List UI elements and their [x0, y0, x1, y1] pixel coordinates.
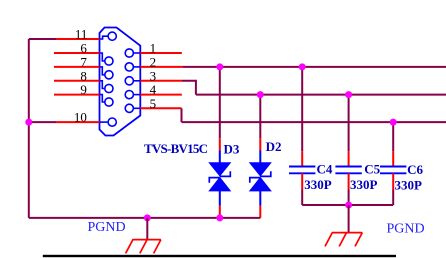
pin red D2 bottom — [259, 206, 261, 218]
connector pin 9 circle — [105, 98, 113, 106]
wire pin5 net to right edge — [182, 121, 446, 123]
svg-text:1: 1 — [150, 41, 157, 56]
wire pin3 stub — [140, 80, 182, 82]
junction pin2/D3 — [216, 63, 223, 70]
connector pin 8 lead — [100, 81, 105, 89]
ground symbol 2 — [325, 233, 362, 247]
wire ground rail left — [29, 217, 260, 219]
wire pin9 stub — [54, 94, 100, 96]
capacitor C6 symbol — [380, 151, 406, 189]
svg-text:7: 7 — [80, 55, 87, 70]
capacitor C4 symbol — [289, 151, 315, 189]
wire gnd2 stem — [348, 205, 350, 233]
wire gnd1 stem — [146, 218, 148, 240]
svg-text:TVS-BV15C: TVS-BV15C — [144, 141, 208, 156]
wire pin8 stub — [54, 80, 100, 82]
wire C5 bottom purple — [348, 190, 350, 206]
connector pin 3 lead — [133, 80, 140, 82]
connector pin 1 circle — [125, 49, 133, 57]
connector pin 6 circle — [105, 57, 113, 65]
wire D2 drop purple — [259, 95, 261, 139]
wire pin11 net purple — [29, 38, 56, 40]
wire pin7 stub — [54, 66, 100, 68]
wire pin2 net to right edge — [182, 66, 446, 68]
wire C5 drop purple — [348, 95, 350, 152]
wire C4 bottom purple — [301, 190, 303, 206]
connector pin 7 lead — [100, 67, 105, 75]
svg-text:2: 2 — [150, 55, 157, 70]
pin red D3 bottom — [219, 206, 221, 218]
connector pin 4 lead — [133, 94, 140, 96]
connector pin 11 lead — [100, 36, 109, 39]
wire pin3 net to right edge — [196, 94, 446, 96]
svg-text:5: 5 — [150, 96, 157, 111]
wire pin5 stub — [140, 107, 181, 109]
svg-text:PGND: PGND — [88, 220, 126, 235]
wire pin6 stub — [54, 52, 100, 54]
junction pin3/D2 — [257, 91, 264, 98]
connector pin 7 circle — [105, 71, 113, 79]
svg-text:330P: 330P — [350, 177, 378, 192]
svg-text:330P: 330P — [304, 177, 332, 192]
svg-text:11: 11 — [75, 27, 88, 42]
TVS diode D3 symbol — [209, 151, 230, 206]
wire pin10 stub red — [56, 121, 100, 123]
connector pin 1 lead — [133, 52, 140, 54]
wire pin10 net purple — [29, 121, 56, 123]
connector pin 2 circle — [125, 63, 133, 71]
junction rail/gnd1 stem — [144, 214, 151, 221]
wire pin1 stub — [140, 52, 182, 54]
connector pin 2 lead — [133, 66, 140, 68]
wire C6 drop purple — [392, 122, 394, 151]
connector pin 5 circle — [125, 104, 133, 112]
svg-text:C6: C6 — [407, 162, 423, 177]
connector pin 6 lead — [100, 53, 105, 61]
svg-text:PGND: PGND — [387, 221, 425, 236]
svg-text:330P: 330P — [395, 178, 423, 193]
connector pin 10 lead — [100, 121, 109, 123]
junction rail/D3 — [216, 214, 223, 221]
wire D3 drop purple — [219, 67, 221, 138]
svg-text:C5: C5 — [364, 162, 380, 177]
svg-text:6: 6 — [80, 41, 87, 56]
svg-text:3: 3 — [150, 68, 157, 83]
wire pin4 stub — [140, 94, 182, 96]
junction pin2/C4 — [299, 63, 306, 70]
wire cap ground rail right — [302, 204, 393, 206]
pin red D3 top — [219, 138, 221, 151]
sheet border line — [43, 255, 396, 257]
connector shell — [100, 28, 141, 136]
junction left vertical / pin10 — [25, 119, 32, 126]
connector pin 3 circle — [125, 77, 133, 85]
wire pin3 net jog — [182, 81, 196, 95]
connector pin 10 circle — [108, 118, 116, 126]
svg-text:C4: C4 — [317, 162, 333, 177]
wire C6 bottom purple — [392, 190, 394, 206]
junction rail2/C5 — [345, 202, 352, 209]
wire pin5 net jog — [181, 108, 183, 122]
connector pin 8 circle — [105, 84, 113, 92]
wire pin11 stub red — [56, 38, 100, 40]
svg-text:8: 8 — [80, 68, 87, 83]
capacitor C5 symbol — [335, 151, 361, 189]
svg-text:D3: D3 — [224, 142, 240, 157]
connector pin 4 circle — [125, 91, 133, 99]
junction pin3/C5 — [345, 91, 352, 98]
junction pin5/C6 — [390, 119, 397, 126]
svg-text:10: 10 — [74, 110, 87, 125]
wire pin2 stub — [140, 66, 182, 68]
connector pin 5 lead — [133, 107, 140, 109]
svg-text:D2: D2 — [266, 139, 282, 154]
wire C4 drop purple — [301, 67, 303, 151]
TVS diode D2 symbol — [250, 151, 271, 206]
connector pin 9 lead — [100, 95, 105, 102]
svg-text:9: 9 — [80, 82, 87, 97]
wire left vertical net — [28, 39, 30, 218]
pin red D2 top — [259, 138, 261, 151]
ground symbol 1 — [126, 240, 161, 254]
connector pin 11 circle — [108, 32, 116, 40]
